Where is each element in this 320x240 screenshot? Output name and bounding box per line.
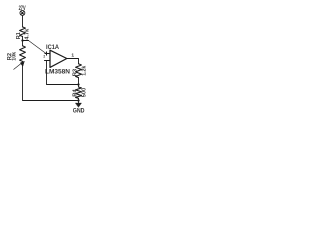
node A junction: [21, 39, 23, 41]
inverting input pin stub: [45, 60, 51, 62]
op-amp IC1A triangle: [50, 50, 67, 67]
svg-text:1: 1: [71, 52, 74, 58]
output wire pin 1: [67, 59, 79, 64]
value 4.7k: [25, 28, 31, 39]
value 500: [81, 88, 87, 98]
plus sign at non-inverting input: [45, 52, 48, 55]
wire R4 to node C: [78, 98, 80, 100]
trimmer R2 wiper arrow: [14, 61, 25, 69]
svg-text:GND: GND: [73, 108, 85, 115]
svg-text:10k: 10k: [11, 52, 17, 61]
label R4: [73, 89, 79, 97]
op-amp label IC1A: [46, 44, 59, 51]
wire R3 to node B: [78, 78, 80, 85]
svg-text:500: 500: [81, 88, 87, 98]
svg-text:1.2k: 1.2k: [81, 66, 87, 76]
label R2: [7, 53, 13, 60]
svg-text:2: 2: [43, 55, 45, 59]
label R3: [73, 69, 79, 77]
value 10k: [11, 52, 17, 61]
wire R2 bottom to ground rail: [23, 61, 79, 100]
node C junction: [77, 99, 79, 101]
svg-text:IC1A: IC1A: [46, 44, 59, 51]
wire R1 to node A: [22, 37, 24, 41]
label GND: [73, 108, 85, 115]
wire supply to R1: [22, 15, 24, 27]
resistor R4: [76, 87, 82, 98]
value 1.2k: [81, 66, 87, 76]
pin number 2: [43, 55, 45, 59]
op-amp part LM358N: [45, 69, 70, 76]
feedback wire node B to inverting input: [47, 61, 79, 85]
supply terminal 27V (circle with X): [20, 10, 25, 15]
ground symbol: [75, 101, 81, 108]
node B junction: [77, 83, 79, 85]
svg-text:LM358N: LM358N: [45, 69, 70, 76]
wire node A to R2: [22, 41, 24, 46]
svg-text:4.7k: 4.7k: [25, 28, 31, 39]
label 27V: [19, 5, 26, 12]
svg-text:R3: R3: [73, 69, 79, 77]
wire node B to R4: [78, 85, 80, 88]
resistor R3: [76, 64, 82, 78]
resistor R1: [20, 27, 26, 37]
svg-text:R4: R4: [73, 89, 79, 97]
pin number 1: [71, 52, 74, 58]
wire node A to op-amp +input: [23, 40, 29, 42]
trimmer R2: [20, 46, 26, 62]
svg-text:R1: R1: [16, 32, 22, 39]
label R1: [16, 32, 22, 39]
